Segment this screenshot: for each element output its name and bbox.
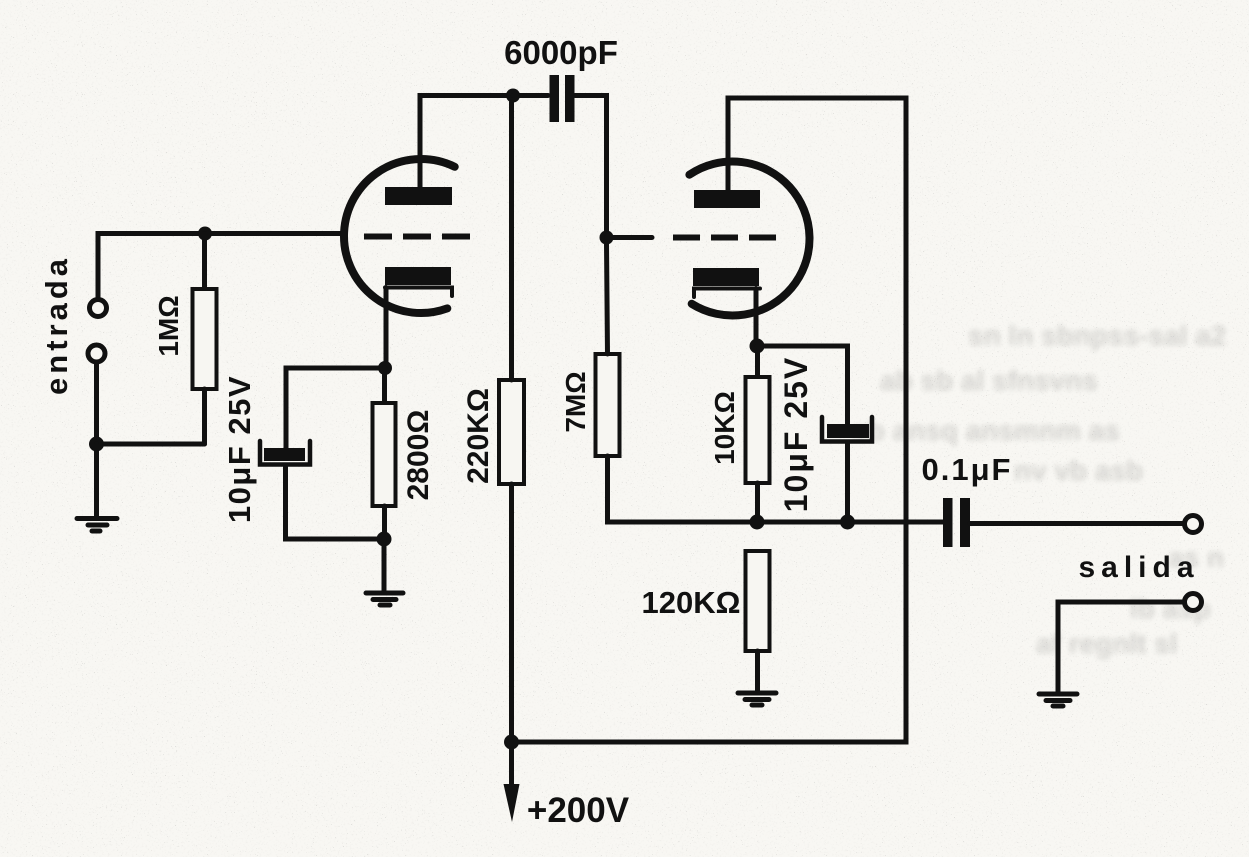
resistor 220K ohm [499,380,524,484]
svg-text:120KΩ: 120KΩ [642,585,741,620]
wire: grid node to V2 grid [607,235,653,240]
wire: junction down to ground [94,444,99,517]
terminal: output top [1185,516,1202,533]
ground: input [77,516,117,521]
wire: junction to 1M bottom [97,442,205,447]
capacitor 10uF 25V (V1 bypass) [286,368,385,452]
svg-text:10μF 25V: 10μF 25V [222,375,257,523]
capacitor 6000pF [513,93,548,98]
node: V2 grid junction [600,231,614,245]
resistor 120K ohm [746,551,770,651]
svg-text:7MΩ: 7MΩ [560,371,591,432]
terminal: input bottom [88,345,105,362]
svg-text:sn ln sbnpss-sal a2: sn ln sbnpss-sal a2 [968,320,1226,351]
svg-text:10KΩ: 10KΩ [709,391,740,465]
svg-text:ab sb al sfnsvns: ab sb al sfnsvns [880,365,1098,396]
svg-text:salida: salida [1078,551,1199,584]
node: V2 cathode junction [750,339,765,354]
terminal: output bottom [1185,594,1202,611]
wire: input top terminal up to grid line [98,234,345,300]
supply +200V arrow [509,742,514,786]
tube V1 envelope [344,159,455,313]
ground: output [1039,692,1077,697]
svg-text:entrada: entrada [39,255,74,395]
resistor 10K ohm [755,346,760,377]
ground: 120K [738,691,776,696]
wire: V1 cathode lead [384,288,389,369]
svg-text:+200V: +200V [527,791,630,830]
svg-text:sb ansq ansmnm as: sb ansq ansmnm as [852,415,1120,446]
svg-text:0.1μF: 0.1μF [922,452,1013,487]
tube V1 plate + lead to top rail [420,96,513,191]
wire: 0.1uF to output terminal [970,521,1184,526]
terminal: input top [90,300,107,317]
capacitor 10uF 25V (V2 bypass) [757,346,848,430]
node: V1 cathode junction [378,361,392,375]
capacitor 0.1uF [943,498,953,547]
wire: 7M bottom to cathode rail [608,456,944,522]
tube V2 envelope [689,162,809,316]
tube V1 cathode [385,267,451,285]
tube V1 grid (dashed) [364,234,471,240]
resistor 1M ohm [202,234,207,290]
svg-text:nv vb asb: nv vb asb [1014,455,1143,486]
svg-text:220KΩ: 220KΩ [462,388,495,484]
tube V2 cathode [693,268,759,286]
ground: V1 cathode network [366,591,403,596]
node: junction input-low / 1M bottom / ground [89,437,104,452]
svg-text:2800Ω: 2800Ω [402,410,435,501]
tube V2 plate + lead + HT rail down right side [512,98,907,742]
svg-text:1MΩ: 1MΩ [153,295,184,356]
ghost bleed-through text (decorative) [852,320,1226,659]
wire: V2 cathode lead [754,289,759,347]
svg-text:10μF 25V: 10μF 25V [778,356,814,513]
node: 2800 bottom junction [377,532,392,547]
node: top rail junction (220K feed) [506,89,520,103]
wire: 6000pF right side down to V2 grid node [575,96,607,238]
svg-text:6000pF: 6000pF [504,34,618,71]
node: 10K bottom / 120K junction [750,515,765,530]
resistor 7M ohm [596,354,620,456]
wire: junction down to ground [382,539,387,591]
node: cap2 bottom junction [840,515,855,530]
resistor 2800 ohm [382,368,387,403]
tube V2 grid (dashed) [673,235,779,241]
wire: input bottom terminal down to ground node [94,362,99,444]
node: +200V junction [504,735,519,750]
wire: output bottom to ground [1058,602,1184,692]
node: junction grid / 1M top [198,227,212,241]
